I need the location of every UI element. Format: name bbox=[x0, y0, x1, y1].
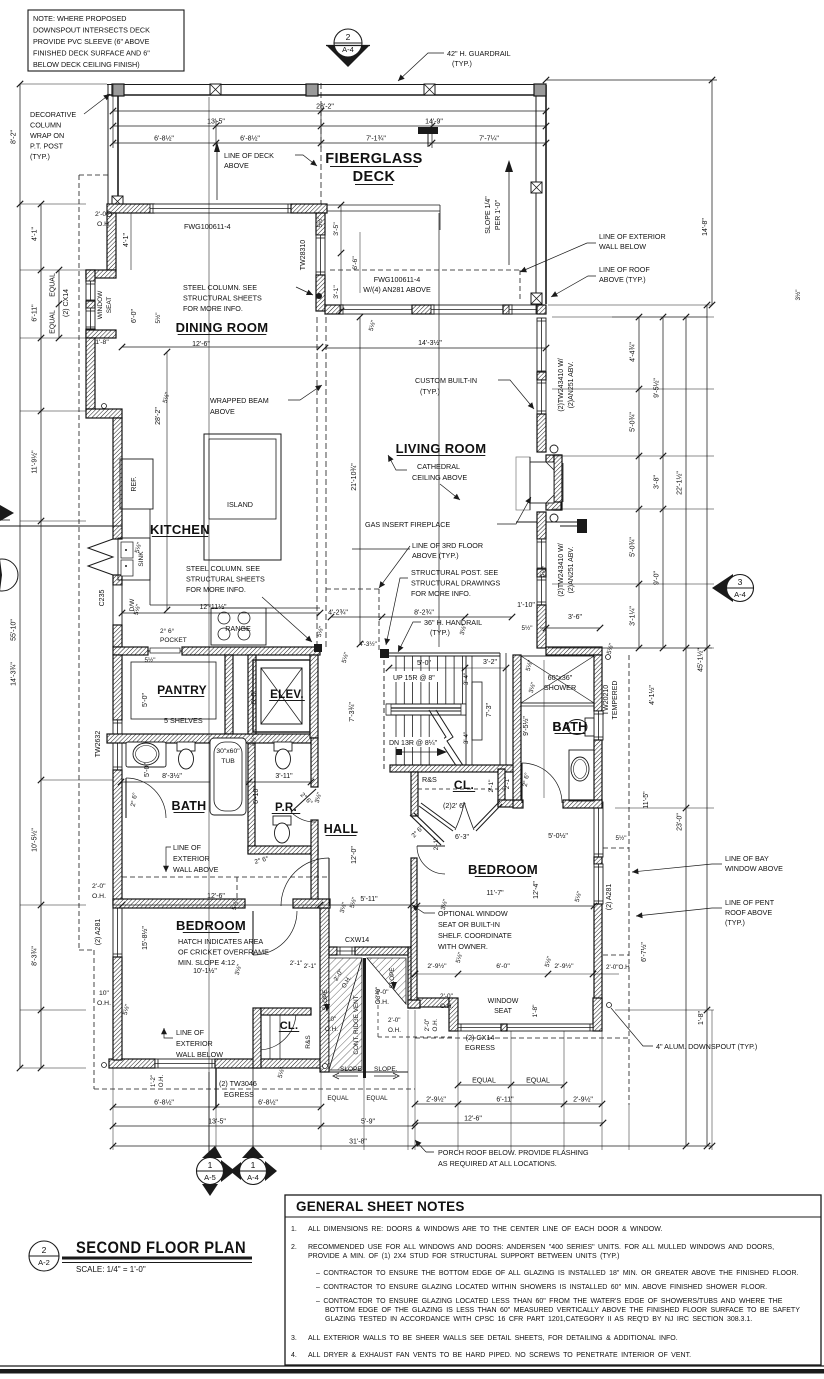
svg-text:SEAT OR BUILT-IN: SEAT OR BUILT-IN bbox=[438, 920, 500, 929]
svg-text:SEAT: SEAT bbox=[106, 297, 113, 314]
svg-text:GLAZING TESTED IN ACCORDANCE W: GLAZING TESTED IN ACCORDANCE WITH CPSC 1… bbox=[325, 1316, 752, 1323]
svg-text:POCKET: POCKET bbox=[160, 637, 187, 644]
svg-text:ALL DRYER & EXHAUST FAN VENTS: ALL DRYER & EXHAUST FAN VENTS TO BE HARD… bbox=[308, 1352, 691, 1359]
svg-text:10": 10" bbox=[327, 1016, 336, 1023]
svg-text:SLOPE.: SLOPE. bbox=[374, 1066, 398, 1073]
svg-text:13'-5": 13'-5" bbox=[208, 1119, 226, 1126]
svg-text:– CONTRACTOR TO ENSURE GLAZIN: – CONTRACTOR TO ENSURE GLAZING LOCATED L… bbox=[316, 1298, 783, 1305]
svg-text:3'-2": 3'-2" bbox=[483, 659, 497, 666]
svg-text:3: 3 bbox=[738, 577, 743, 587]
svg-text:SLOPE 1/4": SLOPE 1/4" bbox=[485, 196, 492, 234]
svg-text:5½": 5½" bbox=[145, 656, 156, 664]
svg-text:GENERAL SHEET NOTES: GENERAL SHEET NOTES bbox=[296, 1199, 465, 1214]
svg-text:6'-7½": 6'-7½" bbox=[640, 942, 648, 962]
svg-text:5'-9": 5'-9" bbox=[361, 1119, 375, 1126]
svg-text:30"x60": 30"x60" bbox=[216, 748, 240, 755]
svg-text:CEILING ABOVE: CEILING ABOVE bbox=[412, 473, 467, 482]
svg-text:BEDROOM: BEDROOM bbox=[176, 918, 246, 933]
svg-text:NOTE: WHERE PROPOSED: NOTE: WHERE PROPOSED bbox=[33, 14, 126, 23]
svg-text:7'-1¾": 7'-1¾" bbox=[366, 136, 386, 143]
svg-text:ALL DIMENSIONS RE: DOORS & WIN: ALL DIMENSIONS RE: DOORS & WINDOWS ARE T… bbox=[308, 1226, 662, 1233]
svg-text:SECOND FLOOR PLAN: SECOND FLOOR PLAN bbox=[76, 1238, 246, 1257]
svg-text:3'-1": 3'-1" bbox=[333, 285, 340, 299]
svg-text:LINE OF PENT: LINE OF PENT bbox=[725, 898, 775, 907]
svg-text:7'-3": 7'-3" bbox=[486, 703, 493, 717]
svg-text:5'-0": 5'-0" bbox=[142, 693, 149, 707]
svg-text:12'-11½": 12'-11½" bbox=[199, 603, 227, 611]
svg-text:2'-0": 2'-0" bbox=[424, 1019, 431, 1032]
svg-text:PORCH ROOF BELOW. PROVIDE FLAS: PORCH ROOF BELOW. PROVIDE FLASHING bbox=[438, 1148, 589, 1157]
svg-text:1.: 1. bbox=[291, 1226, 297, 1233]
svg-text:O.H.: O.H. bbox=[440, 1003, 454, 1010]
svg-text:TW2632: TW2632 bbox=[95, 731, 102, 758]
svg-text:2'-0": 2'-0" bbox=[92, 883, 106, 890]
svg-text:1'-8": 1'-8" bbox=[698, 1011, 705, 1025]
svg-text:STEEL COLUMN. SEE: STEEL COLUMN. SEE bbox=[183, 283, 257, 292]
svg-text:12'-4": 12'-4" bbox=[533, 881, 540, 899]
svg-text:WINDOW ABOVE: WINDOW ABOVE bbox=[725, 864, 783, 873]
svg-text:4'-3½": 4'-3½" bbox=[359, 640, 377, 648]
svg-text:R&S: R&S bbox=[422, 775, 437, 784]
svg-text:5'-0": 5'-0" bbox=[144, 763, 151, 777]
svg-text:(2) CX14: (2) CX14 bbox=[466, 1033, 495, 1042]
svg-text:WALL BELOW: WALL BELOW bbox=[176, 1050, 223, 1059]
svg-text:TUB: TUB bbox=[221, 758, 235, 765]
svg-text:FIBERGLASS: FIBERGLASS bbox=[325, 151, 422, 167]
svg-text:STRUCTURAL SHEETS: STRUCTURAL SHEETS bbox=[186, 575, 265, 584]
svg-text:8'-2": 8'-2" bbox=[11, 130, 18, 144]
svg-text:5'-11": 5'-11" bbox=[360, 896, 378, 903]
svg-text:5'-0¾": 5'-0¾" bbox=[630, 537, 637, 557]
svg-text:1'-8": 1'-8" bbox=[532, 1004, 539, 1018]
svg-text:CUSTOM BUILT-IN: CUSTOM BUILT-IN bbox=[415, 376, 477, 385]
svg-text:FOR MORE INFO.: FOR MORE INFO. bbox=[186, 585, 246, 594]
svg-text:DECK: DECK bbox=[353, 169, 396, 185]
svg-text:PER 1'-0": PER 1'-0" bbox=[495, 199, 502, 230]
svg-text:14'-3¾": 14'-3¾" bbox=[11, 662, 18, 686]
svg-text:(2)AN251 ABV.: (2)AN251 ABV. bbox=[568, 547, 575, 594]
svg-text:(2)TW243410 W/: (2)TW243410 W/ bbox=[558, 543, 565, 596]
svg-text:1: 1 bbox=[251, 1160, 256, 1170]
svg-text:3'-1¼": 3'-1¼" bbox=[630, 606, 637, 626]
svg-text:11'-5": 11'-5" bbox=[643, 791, 650, 809]
svg-text:TW28310: TW28310 bbox=[300, 240, 307, 270]
svg-text:P.R.: P.R. bbox=[275, 802, 297, 814]
svg-text:2'-1": 2'-1" bbox=[433, 838, 440, 851]
svg-text:(2)TW243410 W/: (2)TW243410 W/ bbox=[558, 358, 565, 411]
svg-text:1'-10": 1'-10" bbox=[517, 602, 535, 609]
svg-text:EGRESS: EGRESS bbox=[465, 1043, 495, 1052]
svg-text:ELEV.: ELEV. bbox=[270, 689, 304, 701]
svg-text:(2) A281: (2) A281 bbox=[95, 919, 102, 946]
svg-text:LINE OF: LINE OF bbox=[173, 843, 202, 852]
svg-text:ABOVE: ABOVE bbox=[210, 407, 235, 416]
svg-text:UP 15R @ 8": UP 15R @ 8" bbox=[393, 675, 435, 682]
svg-text:AS REQUIRED AT ALL LOCATIONS.: AS REQUIRED AT ALL LOCATIONS. bbox=[438, 1159, 557, 1168]
svg-text:SEAT: SEAT bbox=[494, 1008, 512, 1015]
svg-text:OF CRICKET OVERFRAME: OF CRICKET OVERFRAME bbox=[178, 948, 269, 957]
svg-text:FOR MORE INFO.: FOR MORE INFO. bbox=[411, 589, 471, 598]
svg-text:45'-1½": 45'-1½" bbox=[697, 648, 705, 672]
svg-text:12'-6": 12'-6" bbox=[207, 893, 225, 900]
svg-text:5½": 5½" bbox=[522, 624, 533, 632]
svg-text:(TYP.): (TYP.) bbox=[420, 387, 440, 396]
svg-text:O.H.: O.H. bbox=[375, 999, 389, 1006]
svg-text:(2) CX14: (2) CX14 bbox=[63, 289, 70, 317]
svg-text:3'-4": 3'-4" bbox=[464, 673, 470, 685]
svg-text:9'-5½": 9'-5½" bbox=[653, 378, 661, 398]
svg-text:6'-0": 6'-0" bbox=[251, 690, 258, 704]
svg-text:A-4: A-4 bbox=[342, 45, 354, 54]
svg-text:LINE OF EXTERIOR: LINE OF EXTERIOR bbox=[599, 232, 666, 241]
svg-text:42" H. GUARDRAIL: 42" H. GUARDRAIL bbox=[447, 49, 511, 58]
svg-text:14'-9": 14'-9" bbox=[425, 119, 443, 126]
svg-text:C235: C235 bbox=[99, 590, 106, 607]
svg-text:2'-1": 2'-1" bbox=[488, 779, 495, 793]
svg-text:DN 13R @ 8¼": DN 13R @ 8¼" bbox=[389, 740, 438, 747]
svg-text:HALL: HALL bbox=[324, 822, 359, 836]
svg-text:ALL EXTERIOR WALLS TO BE SHEER: ALL EXTERIOR WALLS TO BE SHEER WALLS SEE… bbox=[308, 1335, 678, 1342]
svg-text:10'-1½": 10'-1½" bbox=[193, 967, 217, 975]
svg-text:ROOF ABOVE: ROOF ABOVE bbox=[725, 908, 772, 917]
svg-text:6'-8½": 6'-8½" bbox=[154, 135, 174, 143]
svg-text:LINE OF 3RD FLOOR: LINE OF 3RD FLOOR bbox=[412, 541, 483, 550]
svg-text:14'-8": 14'-8" bbox=[702, 218, 709, 236]
svg-text:O.H.: O.H. bbox=[159, 1075, 165, 1088]
svg-text:3'-5": 3'-5" bbox=[333, 222, 340, 236]
svg-text:(TYP.): (TYP.) bbox=[30, 152, 50, 161]
svg-text:3.: 3. bbox=[291, 1335, 297, 1342]
svg-text:3'-4": 3'-4" bbox=[464, 732, 470, 744]
svg-text:TW20210: TW20210 bbox=[603, 685, 610, 715]
svg-text:EQUAL: EQUAL bbox=[472, 1078, 496, 1085]
svg-text:(2) TW3046: (2) TW3046 bbox=[219, 1079, 257, 1088]
svg-text:4.: 4. bbox=[291, 1352, 297, 1359]
svg-text:P.T. POST: P.T. POST bbox=[30, 142, 64, 151]
svg-text:2: 2 bbox=[346, 32, 351, 42]
svg-text:CONT. RIDGE VENT: CONT. RIDGE VENT bbox=[353, 995, 360, 1054]
svg-text:4'-1½": 4'-1½" bbox=[648, 685, 656, 705]
svg-text:A-4: A-4 bbox=[734, 590, 746, 599]
svg-text:BATH: BATH bbox=[553, 720, 588, 734]
svg-text:STRUCTURAL SHEETS: STRUCTURAL SHEETS bbox=[183, 294, 262, 303]
svg-text:TEMPERED: TEMPERED bbox=[612, 681, 619, 720]
svg-text:5'-0¾": 5'-0¾" bbox=[630, 412, 637, 432]
svg-text:DINING ROOM: DINING ROOM bbox=[176, 320, 269, 335]
svg-text:6'-11": 6'-11" bbox=[496, 1097, 514, 1104]
svg-text:(TYP.): (TYP.) bbox=[430, 628, 450, 637]
svg-text:OPTIONAL WINDOW: OPTIONAL WINDOW bbox=[438, 909, 508, 918]
svg-text:7'-3¾": 7'-3¾" bbox=[349, 702, 356, 722]
svg-text:8'-3¾": 8'-3¾" bbox=[32, 946, 39, 966]
svg-text:6'-8½": 6'-8½" bbox=[240, 135, 260, 143]
svg-text:BEDROOM: BEDROOM bbox=[468, 862, 538, 877]
svg-text:2'-9½": 2'-9½" bbox=[426, 1096, 446, 1104]
svg-text:EQUAL: EQUAL bbox=[366, 1095, 388, 1102]
svg-text:28'-2": 28'-2" bbox=[316, 104, 334, 111]
svg-text:LINE OF: LINE OF bbox=[176, 1028, 205, 1037]
svg-text:2'-1": 2'-1" bbox=[290, 960, 303, 967]
svg-text:5'-0½": 5'-0½" bbox=[548, 832, 568, 840]
svg-text:23'-0": 23'-0" bbox=[677, 813, 684, 831]
svg-text:SHELF. COORDINATE: SHELF. COORDINATE bbox=[438, 931, 512, 940]
svg-text:REF.: REF. bbox=[131, 476, 138, 491]
svg-text:1'-8": 1'-8" bbox=[95, 339, 109, 346]
svg-text:STRUCTURAL DRAWINGS: STRUCTURAL DRAWINGS bbox=[411, 579, 501, 588]
svg-text:BOTTOM EDGE OF THE GLAZING IS: BOTTOM EDGE OF THE GLAZING IS LESS THAN … bbox=[325, 1307, 800, 1314]
svg-text:– CONTRACTOR TO ENSURE GLAZIN: – CONTRACTOR TO ENSURE GLAZING LOCATED W… bbox=[316, 1284, 767, 1291]
svg-text:2'-1": 2'-1" bbox=[304, 963, 317, 970]
svg-text:21'-10¾": 21'-10¾" bbox=[351, 463, 358, 491]
svg-text:3'-8": 3'-8" bbox=[654, 475, 661, 489]
svg-text:6'-8½": 6'-8½" bbox=[258, 1099, 278, 1107]
svg-text:15'-8½": 15'-8½" bbox=[141, 926, 149, 950]
svg-text:12'-6": 12'-6" bbox=[464, 1116, 482, 1123]
svg-text:2: 2 bbox=[42, 1245, 47, 1255]
svg-text:2'-9½": 2'-9½" bbox=[573, 1096, 593, 1104]
svg-text:PROVIDE PVC SLEEVE (6" ABOVE: PROVIDE PVC SLEEVE (6" ABOVE bbox=[33, 37, 150, 46]
svg-text:LIVING ROOM: LIVING ROOM bbox=[396, 441, 487, 456]
svg-text:O.H.: O.H. bbox=[92, 893, 106, 900]
svg-text:O.H.: O.H. bbox=[432, 1018, 439, 1031]
svg-text:6'-6": 6'-6" bbox=[352, 256, 359, 270]
svg-text:SLOPE: SLOPE bbox=[340, 1066, 362, 1073]
svg-text:CATHEDRAL: CATHEDRAL bbox=[417, 462, 460, 471]
svg-text:ABOVE: ABOVE bbox=[224, 161, 249, 170]
svg-text:55'-10": 55'-10" bbox=[11, 619, 18, 641]
svg-text:PROVIDE A MIN. OF (1) 2X4 STUD: PROVIDE A MIN. OF (1) 2X4 STUD FOR STRUC… bbox=[308, 1253, 619, 1260]
svg-text:EQUAL: EQUAL bbox=[526, 1078, 550, 1085]
svg-text:2'-1": 2'-1" bbox=[504, 777, 511, 790]
svg-text:4'-1": 4'-1" bbox=[32, 227, 39, 241]
svg-text:COLUMN: COLUMN bbox=[30, 121, 61, 130]
svg-text:2'-0": 2'-0" bbox=[440, 993, 454, 1000]
svg-text:LINE OF BAY: LINE OF BAY bbox=[725, 854, 769, 863]
svg-text:EXTERIOR: EXTERIOR bbox=[176, 1039, 213, 1048]
svg-text:SCALE: 1/4" = 1'-0": SCALE: 1/4" = 1'-0" bbox=[76, 1265, 146, 1274]
svg-text:EXTERIOR: EXTERIOR bbox=[173, 854, 210, 863]
svg-text:6'-11": 6'-11" bbox=[32, 304, 39, 322]
svg-text:RECOMMENDED USE FOR ALL WINDOW: RECOMMENDED USE FOR ALL WINDOWS AND DOOR… bbox=[308, 1244, 774, 1251]
svg-text:ABOVE (TYP.): ABOVE (TYP.) bbox=[412, 551, 459, 560]
svg-text:LINE OF ROOF: LINE OF ROOF bbox=[599, 265, 650, 274]
svg-text:BELOW DECK CEILING FINISH): BELOW DECK CEILING FINISH) bbox=[33, 60, 140, 69]
svg-text:GAS INSERT FIREPLACE: GAS INSERT FIREPLACE bbox=[365, 520, 450, 529]
svg-text:(2)AN251 ABV.: (2)AN251 ABV. bbox=[568, 362, 575, 409]
svg-text:9'-0": 9'-0" bbox=[654, 571, 661, 585]
svg-text:W/(4) AN281 ABOVE: W/(4) AN281 ABOVE bbox=[363, 285, 431, 294]
svg-text:6'-3": 6'-3" bbox=[455, 834, 469, 841]
svg-text:28'-2": 28'-2" bbox=[155, 407, 162, 425]
svg-text:R&S: R&S bbox=[305, 1035, 312, 1049]
svg-text:HATCH INDICATES AREA: HATCH INDICATES AREA bbox=[178, 937, 263, 946]
svg-text:ISLAND: ISLAND bbox=[227, 500, 253, 509]
svg-text:A-5: A-5 bbox=[204, 1173, 216, 1182]
svg-text:RANGE: RANGE bbox=[225, 624, 251, 633]
svg-text:2.: 2. bbox=[291, 1244, 297, 1251]
svg-text:WRAPPED BEAM: WRAPPED BEAM bbox=[210, 396, 269, 405]
svg-text:2° 6°: 2° 6° bbox=[160, 627, 175, 635]
svg-text:SHOWER: SHOWER bbox=[544, 683, 576, 692]
svg-text:31'-8": 31'-8" bbox=[349, 1139, 367, 1146]
svg-text:10": 10" bbox=[99, 990, 110, 997]
svg-text:5½": 5½" bbox=[154, 313, 162, 324]
svg-text:6'-0": 6'-0" bbox=[131, 309, 138, 323]
svg-text:4" ALUM. DOWNSPOUT (TYP.): 4" ALUM. DOWNSPOUT (TYP.) bbox=[656, 1042, 757, 1051]
svg-text:CL.: CL. bbox=[280, 1020, 299, 1032]
svg-text:A-2: A-2 bbox=[38, 1258, 50, 1267]
svg-text:8'-2¾": 8'-2¾" bbox=[414, 610, 434, 617]
svg-text:STEEL COLUMN. SEE: STEEL COLUMN. SEE bbox=[186, 564, 260, 573]
svg-text:WINDOW: WINDOW bbox=[488, 998, 519, 1005]
svg-text:LINE OF DECK: LINE OF DECK bbox=[224, 151, 274, 160]
svg-text:10'-5½": 10'-5½" bbox=[31, 828, 39, 852]
svg-text:11'-7": 11'-7" bbox=[486, 890, 504, 897]
svg-text:WRAP ON: WRAP ON bbox=[30, 131, 64, 140]
svg-text:EGRESS: EGRESS bbox=[224, 1090, 254, 1099]
svg-text:(2) A281: (2) A281 bbox=[606, 884, 613, 911]
svg-text:9'-5½": 9'-5½" bbox=[522, 716, 530, 736]
svg-text:36" H. HANDRAIL: 36" H. HANDRAIL bbox=[424, 618, 482, 627]
svg-text:– CONTRACTOR TO ENSURE THE BO: – CONTRACTOR TO ENSURE THE BOTTOM EDGE O… bbox=[316, 1270, 799, 1277]
svg-text:BATH: BATH bbox=[172, 799, 207, 813]
svg-text:2'-9½": 2'-9½" bbox=[554, 962, 574, 970]
svg-text:EQUAL: EQUAL bbox=[50, 310, 57, 334]
svg-text:STRUCTURAL POST. SEE: STRUCTURAL POST. SEE bbox=[411, 568, 498, 577]
svg-text:WALL ABOVE: WALL ABOVE bbox=[173, 865, 219, 874]
svg-text:O.H.: O.H. bbox=[325, 1026, 338, 1033]
svg-text:5½": 5½" bbox=[316, 217, 324, 228]
svg-text:O.H.: O.H. bbox=[97, 1000, 111, 1007]
svg-text:6'-0": 6'-0" bbox=[496, 963, 510, 970]
svg-text:5'-0": 5'-0" bbox=[417, 660, 431, 667]
svg-text:11'-9½": 11'-9½" bbox=[31, 450, 39, 474]
svg-text:ABOVE (TYP.): ABOVE (TYP.) bbox=[599, 275, 646, 284]
svg-text:5½": 5½" bbox=[616, 834, 627, 842]
svg-text:KITCHEN: KITCHEN bbox=[150, 522, 210, 537]
svg-text:4'-1": 4'-1" bbox=[123, 233, 130, 247]
svg-text:3½": 3½" bbox=[794, 290, 802, 301]
svg-text:EQUAL: EQUAL bbox=[327, 1095, 349, 1102]
svg-text:DOWNSPOUT INTERSECTS DECK: DOWNSPOUT INTERSECTS DECK bbox=[33, 26, 150, 35]
svg-text:14'-3½": 14'-3½" bbox=[418, 339, 442, 347]
svg-text:WITH OWNER.: WITH OWNER. bbox=[438, 942, 488, 951]
svg-text:2'-0": 2'-0" bbox=[388, 1017, 401, 1024]
svg-text:MIN. SLOPE 4:12: MIN. SLOPE 4:12 bbox=[178, 958, 235, 967]
svg-text:CL.: CL. bbox=[454, 778, 474, 792]
svg-text:WINDOW: WINDOW bbox=[97, 290, 104, 319]
svg-text:FWG100611-4: FWG100611-4 bbox=[184, 222, 231, 231]
svg-text:2'-0"O.H: 2'-0"O.H bbox=[606, 964, 630, 971]
svg-text:PANTRY: PANTRY bbox=[157, 683, 207, 697]
svg-text:3'-6": 3'-6" bbox=[568, 614, 582, 621]
svg-text:1'-2": 1'-2" bbox=[151, 1075, 157, 1087]
svg-text:DECORATIVE: DECORATIVE bbox=[30, 110, 76, 119]
svg-text:FWG100611-4: FWG100611-4 bbox=[374, 275, 421, 284]
svg-text:FINISHED DECK SURFACE AND 6": FINISHED DECK SURFACE AND 6" bbox=[33, 49, 150, 58]
svg-text:8'-3½": 8'-3½" bbox=[162, 772, 182, 780]
svg-text:5 SHELVES: 5 SHELVES bbox=[164, 716, 203, 725]
svg-text:O.H.: O.H. bbox=[388, 1027, 401, 1034]
svg-text:4'-4¾": 4'-4¾" bbox=[630, 342, 637, 362]
svg-text:(TYP.): (TYP.) bbox=[725, 918, 745, 927]
svg-text:O.H.: O.H. bbox=[97, 221, 111, 228]
svg-text:A-4: A-4 bbox=[247, 1173, 259, 1182]
svg-text:3'-11": 3'-11" bbox=[275, 773, 293, 780]
svg-text:WALL BELOW: WALL BELOW bbox=[599, 242, 646, 251]
svg-text:60"x36": 60"x36" bbox=[548, 673, 573, 682]
svg-text:7'-7¼": 7'-7¼" bbox=[479, 136, 499, 143]
svg-text:CXW14: CXW14 bbox=[345, 937, 369, 944]
svg-text:4'-2¾": 4'-2¾" bbox=[328, 610, 348, 617]
svg-text:12'-0": 12'-0" bbox=[351, 846, 358, 864]
svg-text:1: 1 bbox=[208, 1160, 213, 1170]
svg-text:(TYP.): (TYP.) bbox=[452, 59, 472, 68]
svg-text:2'-9½": 2'-9½" bbox=[427, 962, 447, 970]
svg-text:6'-10": 6'-10" bbox=[253, 786, 260, 804]
svg-text:6'-8½": 6'-8½" bbox=[154, 1099, 174, 1107]
svg-text:FOR MORE INFO.: FOR MORE INFO. bbox=[183, 304, 243, 313]
svg-text:EQUAL: EQUAL bbox=[50, 273, 57, 297]
svg-text:22'-1½": 22'-1½" bbox=[676, 471, 684, 495]
svg-text:2'-0": 2'-0" bbox=[375, 989, 389, 996]
